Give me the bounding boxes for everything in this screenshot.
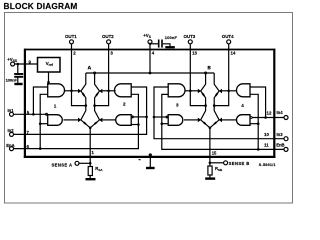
wire sense A down (90, 128, 94, 167)
IC box outline (24, 49, 276, 158)
svg-text:14: 14 (231, 51, 236, 56)
AND gate 3a (168, 84, 185, 97)
transistor Q8 base arrow (lower right) (214, 118, 222, 125)
AND gate 4b (237, 115, 251, 126)
label gate pair 1 (54, 103, 57, 108)
transistor Q2 base arrow (upper right) (96, 89, 102, 96)
transistor Q1 base arrow (upper left) (78, 89, 84, 96)
svg-text:4: 4 (241, 103, 244, 108)
pin OUT1 (65, 34, 77, 56)
svg-text:OUT3: OUT3 (184, 34, 196, 39)
capacitor 100nF (top) (150, 35, 178, 48)
ground (top cap) (165, 46, 175, 48)
pin SENSE A (52, 161, 92, 167)
wire In1 (14, 113, 48, 116)
wire In2 to gate 2 column (14, 87, 147, 134)
pin In3 (264, 132, 288, 141)
supply rail node A to node B (86, 72, 214, 74)
wire gate4b output to bridge B lower right (222, 119, 237, 121)
wire gate3b output to bridge B lower left (184, 119, 198, 121)
AND gate 1b (48, 115, 63, 126)
svg-text:4: 4 (152, 51, 155, 56)
ground (RSB) (205, 177, 215, 179)
wire In4 branch up to gate 4a (250, 87, 266, 118)
svg-text:3: 3 (110, 51, 113, 56)
svg-text:BLOCK DIAGRAM: BLOCK DIAGRAM (4, 1, 78, 11)
pin +Vs (143, 33, 155, 56)
svg-text:EnB: EnB (276, 143, 284, 148)
transistor Q4 base arrow (lower right) (95, 118, 103, 125)
pin OUT2 (102, 34, 114, 56)
ground (GND pin) (146, 167, 155, 169)
svg-text:10: 10 (264, 132, 269, 137)
capacitor 100nF (left) (6, 64, 24, 83)
wire OUT2 down (95, 44, 109, 106)
pin EnA (6, 143, 29, 151)
node B (204, 66, 211, 75)
border frame (5, 13, 293, 204)
wire gate3a output to bridge B left (186, 90, 199, 93)
transistor Q5 base arrow (upper left) (198, 89, 204, 96)
svg-text:1: 1 (92, 150, 95, 155)
wire gate1b output to bridge A lower left (64, 119, 79, 121)
pin +Vss (7, 57, 31, 66)
pin OUT4 (222, 34, 236, 56)
arrow from Vref down (47, 72, 50, 85)
transistor Q7 base arrow (lower left) (198, 118, 206, 125)
inverter bubble gate 1b (45, 113, 47, 115)
svg-text:15: 15 (212, 151, 217, 156)
svg-text:100nF: 100nF (165, 35, 178, 40)
svg-text:RSA: RSA (95, 166, 103, 172)
inverter bubble gate 2b (131, 116, 133, 118)
transistor Q6 base arrow (upper right) (216, 89, 222, 96)
wire EnB branch to gates 4 (250, 94, 260, 149)
transistor pair Q1/Q3 bridge A left branch (81, 73, 90, 128)
inverter bubble gate 3b (166, 116, 168, 118)
wire gate2b output to bridge A lower right (102, 119, 115, 121)
svg-text:2: 2 (123, 101, 126, 106)
transistor pair Q2/Q4 bridge A right branch (90, 73, 99, 128)
wire EnB stub to gate 3b (161, 122, 169, 125)
transistor pair Q5/Q7 bridge B left branch (201, 73, 210, 128)
wire +Vss to Vref (15, 63, 38, 66)
ground (left cap) (14, 83, 22, 85)
pin EnB (264, 142, 288, 151)
resistor RSA (88, 166, 103, 178)
wire OUT4 down (214, 44, 229, 106)
AND gate 4a (237, 84, 250, 97)
svg-text:12: 12 (267, 110, 272, 115)
wire In2 stub to gate 2b (131, 116, 148, 119)
wire +Vs down to rail (149, 43, 152, 75)
svg-text:SENSE B: SENSE B (229, 161, 250, 166)
inverter bubble gate 4b (250, 116, 252, 118)
pin In2 (8, 128, 30, 136)
ground (RSA) (86, 178, 96, 180)
voltage reference block Vref (38, 58, 61, 73)
wire gate4a output to bridge B right (222, 90, 237, 93)
junction dots bridge B waist (204, 104, 215, 129)
svg-text:RSB: RSB (215, 166, 223, 172)
svg-text:1: 1 (54, 103, 57, 108)
label gate pair 4 (241, 103, 244, 108)
svg-text:SENSE A: SENSE A (52, 162, 73, 167)
title (4, 1, 78, 11)
wire In1 branch up to gate 1a (33, 87, 47, 114)
wire EnA branch to gates 2 (131, 94, 140, 125)
transistor pair Q6/Q8 bridge B right branch (210, 73, 219, 128)
wire In4 (252, 116, 284, 119)
pin SENSE B (209, 161, 250, 166)
svg-text:2: 2 (73, 51, 76, 56)
resistor RSB (208, 166, 223, 178)
junction dots bridge A waist (85, 104, 96, 129)
wire In3 stub to gate 3b (153, 116, 169, 119)
AND gate 2b (116, 115, 132, 126)
wire EnB (162, 94, 284, 150)
wire gate2a output to bridge A right (102, 90, 115, 93)
wire sense B down (210, 128, 217, 166)
AND gate 3b (168, 115, 183, 126)
pin In4 (267, 110, 289, 119)
node A (88, 66, 97, 75)
svg-text:3: 3 (176, 102, 179, 107)
wire EnA (14, 125, 139, 150)
label gate pair 2 (123, 101, 126, 106)
pin GND 8 (139, 153, 152, 167)
svg-text:S-5891/1: S-5891/1 (259, 163, 276, 167)
svg-text:Vref: Vref (46, 61, 54, 67)
svg-text:In4: In4 (277, 110, 284, 115)
svg-text:OUT1: OUT1 (65, 34, 77, 39)
svg-text:13: 13 (192, 51, 197, 56)
wire EnA branch up to gates 1 (39, 94, 48, 148)
AND gate 1a (48, 84, 65, 97)
label gate pair 3 (176, 102, 179, 107)
svg-text:OUT4: OUT4 (222, 34, 234, 39)
svg-text:11: 11 (264, 142, 269, 147)
figure code label (259, 163, 276, 167)
wire OUT1 down (72, 44, 86, 106)
wire OUT3 down (190, 44, 205, 106)
transistor Q3 base arrow (lower left) (78, 118, 86, 125)
pin In1 (8, 108, 30, 117)
wire gate1a output to bridge A left (65, 90, 78, 93)
wire In3 to gate 3 column (154, 87, 284, 139)
svg-text:+VS: +VS (143, 33, 151, 39)
svg-text:OUT2: OUT2 (102, 34, 114, 39)
pin OUT3 (184, 34, 198, 56)
svg-text:In3: In3 (277, 132, 284, 137)
svg-text:100nF: 100nF (6, 77, 18, 82)
AND gate 2a (115, 84, 132, 97)
